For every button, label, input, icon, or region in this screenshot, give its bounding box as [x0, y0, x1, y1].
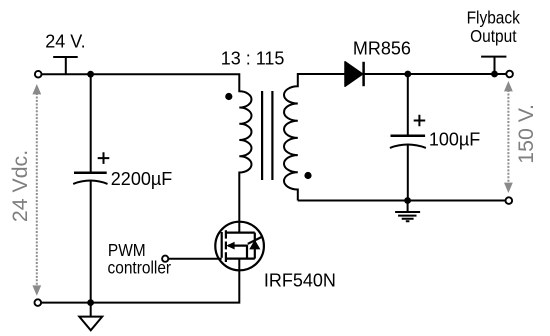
svg-text:150 V.: 150 V.: [514, 104, 538, 164]
svg-text:IRF540N: IRF540N: [264, 271, 336, 291]
svg-text:Output: Output: [470, 26, 517, 46]
svg-text:100µF: 100µF: [429, 130, 480, 150]
svg-text:13 : 115: 13 : 115: [221, 48, 285, 68]
svg-text:controller: controller: [108, 258, 172, 278]
svg-text:MR856: MR856: [353, 38, 411, 58]
svg-text:2200µF: 2200µF: [111, 169, 172, 189]
svg-text:24 V.: 24 V.: [45, 32, 85, 52]
svg-text:Flyback: Flyback: [467, 8, 521, 28]
svg-text:24 Vdc.: 24 Vdc.: [8, 150, 32, 222]
